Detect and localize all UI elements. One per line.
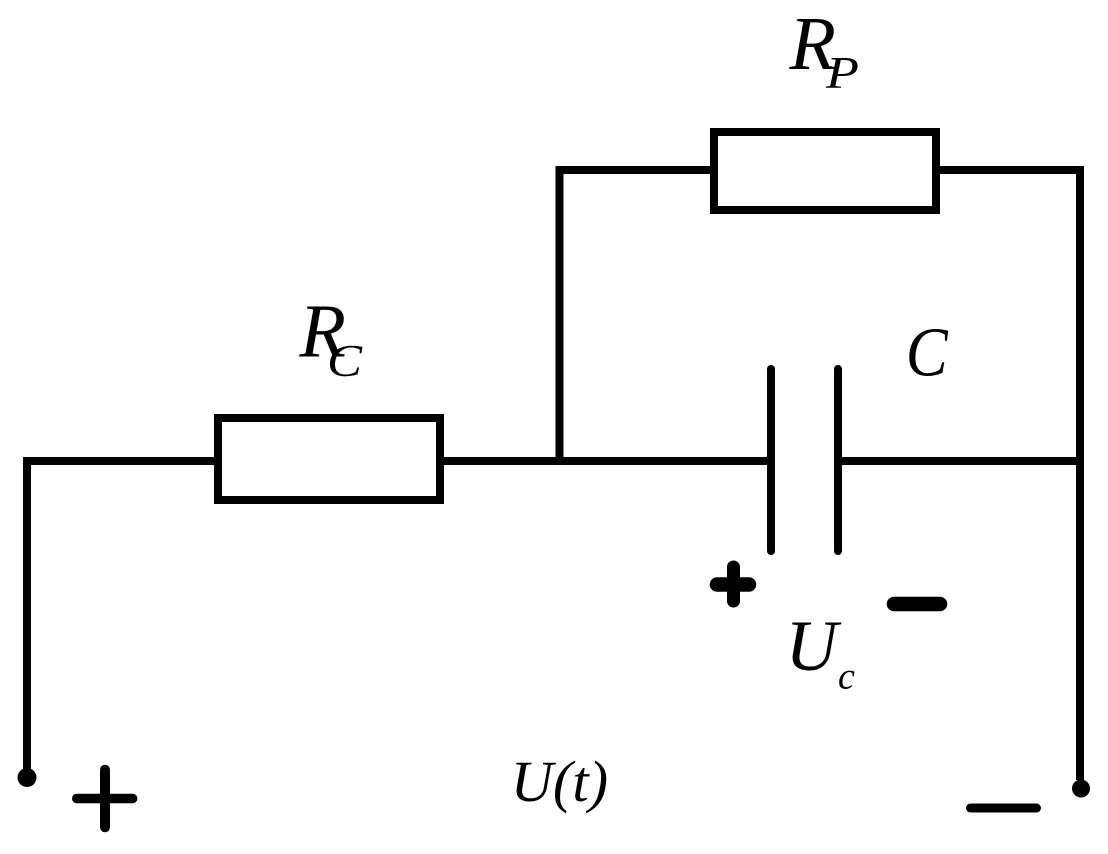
wire: RP right down to right terminal (L-shape)	[936, 170, 1080, 780]
polarity plus at capacitor	[717, 567, 749, 601]
resistor RP body	[714, 132, 936, 210]
svg-text:c: c	[838, 656, 855, 698]
wire: RC right to capacitor left plate	[440, 457, 767, 465]
svg-text:C: C	[327, 335, 363, 386]
svg-text:P: P	[825, 47, 859, 98]
svg-text:U(t): U(t)	[511, 749, 608, 814]
polarity minus at right terminal	[971, 804, 1037, 813]
resistor RC body	[218, 418, 440, 500]
capacitor C left plate	[767, 369, 775, 551]
node: right terminal dot	[1072, 780, 1090, 798]
wire: capacitor right plate to right vertical wire	[842, 457, 1084, 465]
svg-text:C: C	[906, 315, 949, 392]
polarity minus at capacitor	[894, 597, 940, 612]
node: left terminal dot	[18, 768, 37, 787]
capacitor C right plate	[834, 369, 842, 551]
svg-text:U: U	[786, 606, 842, 686]
polarity plus at left terminal	[77, 770, 133, 828]
wire: junction node up and over to RP left (L-shape)	[560, 170, 715, 465]
wire: left terminal up to RC (L-shape)	[27, 461, 218, 774]
